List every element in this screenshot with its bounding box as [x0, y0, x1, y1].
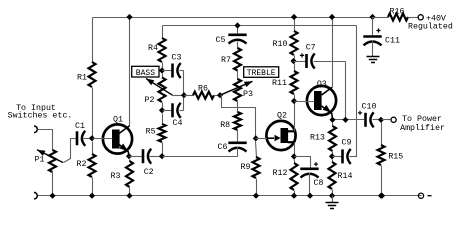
svg-text:P3: P3 — [243, 90, 253, 99]
svg-text:P2: P2 — [145, 96, 155, 105]
node junction P2-C4-R5 — [159, 107, 165, 113]
node junction Q1 emitter-C2-R3 — [126, 153, 132, 159]
label R8 — [220, 121, 230, 130]
node junction R15-rail — [378, 193, 384, 199]
svg-text:R10: R10 — [273, 40, 288, 49]
node junction R11-Q2-Q3 base — [291, 98, 297, 104]
node junction R5-C2-C6 line — [159, 153, 165, 159]
node junction emitter-R13 — [329, 117, 335, 123]
transistor Q1 — [93, 124, 133, 156]
capacitor C3 — [163, 63, 184, 78]
ground C11 — [367, 57, 380, 63]
node junction R3-rail — [126, 193, 132, 199]
label R6 — [198, 85, 208, 94]
svg-text:C1: C1 — [75, 122, 85, 131]
capacitor C11 — [363, 18, 381, 57]
resistor R6 — [185, 92, 221, 99]
wire C7 to emitter node — [345, 62, 347, 120]
resistor R13 — [329, 123, 336, 155]
node junction treble wiper — [217, 92, 223, 98]
node junction R13-R14-C9 — [329, 153, 335, 159]
svg-text:BASS: BASS — [136, 69, 155, 78]
capacitor C5 — [228, 26, 246, 49]
wire feedback line C2 to C6 — [163, 156, 238, 158]
node junction R4-C3-P2 — [159, 67, 165, 73]
wire Q3 emitter line — [333, 119, 365, 121]
svg-text:Switches etc.: Switches etc. — [8, 111, 73, 121]
label C1 — [75, 122, 85, 131]
wire Q1 collector to rail — [129, 18, 131, 127]
potentiometer P3 — [220, 71, 253, 102]
resistor R15 — [378, 123, 385, 196]
label R1 — [77, 74, 87, 83]
potentiometer P2 — [146, 74, 185, 109]
transistor Q3 — [295, 86, 337, 119]
node output terminal — [391, 117, 396, 122]
label R12 — [273, 169, 288, 178]
svg-text:C2: C2 — [144, 168, 154, 177]
ground bottom rail — [326, 196, 339, 209]
node junction C10-R15-output — [378, 117, 384, 123]
svg-text:To Power: To Power — [402, 115, 442, 124]
node junction emitter-C7 — [342, 117, 348, 123]
node supply terminal — [418, 15, 423, 20]
node junction C5-rail — [234, 22, 240, 28]
svg-text:C5: C5 — [216, 36, 226, 45]
label R7 — [221, 56, 231, 65]
svg-text:R8: R8 — [220, 121, 230, 130]
svg-text:Regulated: Regulated — [408, 22, 453, 32]
svg-text:R7: R7 — [221, 56, 231, 65]
label +40V — [426, 14, 446, 23]
node junction bass wiper — [181, 92, 187, 98]
svg-text:Q3: Q3 — [317, 80, 327, 89]
capacitor C7 — [294, 54, 346, 69]
capacitor C10 — [366, 112, 382, 127]
label C2 — [144, 168, 154, 177]
node 0V terminal — [418, 193, 431, 198]
svg-text:Q2: Q2 — [277, 112, 287, 121]
resistor R9 — [253, 142, 260, 196]
resistor R8 — [234, 102, 241, 142]
plus C8 — [314, 162, 318, 166]
label R11 — [272, 79, 287, 88]
wire C3-C4 right side — [183, 71, 185, 111]
svg-text:C3: C3 — [172, 54, 182, 63]
label To Power — [402, 115, 442, 124]
label Q2 — [277, 112, 287, 121]
wire Q2 top to node — [294, 102, 296, 132]
wire top +V rail — [93, 17, 373, 19]
wire Q3 collector to rail — [332, 18, 334, 88]
resistor R4 — [159, 26, 166, 69]
label To Input — [16, 104, 56, 113]
capacitor C1 — [77, 131, 92, 146]
svg-text:R15: R15 — [388, 153, 403, 162]
wire P1 wiper to C1 — [64, 139, 78, 163]
node input bottom terminal — [34, 192, 37, 199]
svg-text:R11: R11 — [272, 79, 287, 88]
resistor R10 — [291, 18, 298, 59]
node junction R10-rail — [291, 14, 297, 20]
label R14 — [338, 172, 353, 181]
resistor R11 — [291, 64, 298, 100]
wire bottom 0V rail — [37, 195, 422, 197]
svg-text:R2: R2 — [77, 160, 87, 169]
label C6 — [218, 143, 228, 152]
svg-text:P1: P1 — [35, 156, 45, 165]
node junction collector-rail Q1 — [126, 14, 132, 20]
label C10 — [362, 103, 377, 112]
wire treble wiper drop — [221, 96, 256, 137]
label P2 — [145, 96, 155, 105]
node junction C8-rail — [307, 193, 313, 199]
node junction C1-R1-R2-Q1 base — [89, 135, 95, 141]
capacitor C9 — [333, 149, 357, 164]
svg-text:Amplifier: Amplifier — [400, 123, 445, 133]
label R5 — [146, 128, 156, 137]
svg-text:C4: C4 — [173, 119, 183, 128]
svg-text:Q1: Q1 — [113, 116, 123, 125]
node junction P1-rail — [49, 193, 55, 199]
capacitor C6 — [228, 143, 246, 157]
label R2 — [77, 160, 87, 169]
label R10 — [273, 40, 288, 49]
label C11 — [385, 37, 400, 46]
label Regulated — [408, 22, 453, 32]
node junction R2-rail — [89, 193, 95, 199]
svg-text:C10: C10 — [362, 103, 377, 112]
node junction C11-R16-rail — [369, 14, 375, 20]
resistor R5 — [159, 114, 166, 155]
potentiometer P1 — [37, 150, 63, 196]
transistor Q2 — [256, 121, 296, 150]
label Q1 — [113, 116, 123, 125]
node junction Q2-R12-C8 — [291, 153, 297, 159]
resistor R12 — [291, 160, 298, 196]
svg-text:C6: C6 — [218, 143, 228, 152]
label R13 — [310, 134, 325, 143]
label Switches etc. — [8, 111, 73, 121]
label C7 — [306, 44, 316, 53]
svg-text:R9: R9 — [241, 163, 251, 172]
resistor R7 — [234, 48, 241, 71]
resistor R2 — [89, 142, 96, 196]
svg-text:R1: R1 — [77, 74, 87, 83]
svg-text:R16: R16 — [390, 7, 405, 16]
label R3 — [111, 172, 121, 181]
label R15 — [388, 153, 403, 162]
label P1 — [35, 156, 45, 165]
label BASS box — [132, 66, 159, 78]
wire output — [382, 119, 391, 121]
svg-text:R6: R6 — [198, 85, 208, 94]
label TREBLE box — [244, 67, 279, 78]
label C5 — [216, 36, 226, 45]
svg-text:R12: R12 — [273, 169, 288, 178]
label P3 — [243, 90, 253, 99]
node junction ground dot — [379, 193, 385, 199]
label R4 — [148, 44, 158, 53]
node input top terminal — [34, 126, 37, 133]
svg-text:R13: R13 — [310, 134, 325, 143]
svg-text:R4: R4 — [148, 44, 158, 53]
svg-text:TREBLE: TREBLE — [247, 69, 276, 78]
node junction R10-R11-C7 — [290, 58, 296, 64]
resistor R1 — [89, 18, 96, 137]
resistor R14 — [329, 160, 336, 196]
svg-text:C9: C9 — [342, 139, 352, 148]
node junction Q2 input — [253, 135, 259, 141]
capacitor C8 — [295, 157, 319, 196]
label C8 — [314, 179, 324, 188]
label C4 — [173, 119, 183, 128]
label R16 — [390, 7, 405, 16]
capacitor C2 — [130, 149, 163, 164]
svg-text:R5: R5 — [146, 128, 156, 137]
label R9 — [241, 163, 251, 172]
resistor R3 — [126, 160, 133, 196]
svg-text:C7: C7 — [306, 44, 316, 53]
node junction R14-rail-ground — [329, 193, 335, 199]
label Q3 — [317, 80, 327, 89]
wire Q2 bottom to R12 — [294, 143, 296, 155]
svg-text:C11: C11 — [385, 37, 400, 46]
plus C7 — [300, 53, 304, 57]
wire input to P1 — [38, 130, 53, 151]
svg-text:R3: R3 — [111, 172, 121, 181]
svg-text:R14: R14 — [338, 172, 353, 181]
resistor R16 — [373, 14, 419, 21]
plus C10 — [358, 111, 362, 115]
svg-text:C8: C8 — [314, 179, 324, 188]
label C9 — [342, 139, 352, 148]
node junction R12-rail — [291, 193, 297, 199]
plus C11 — [376, 28, 380, 32]
node junction Q3 collector-rail — [329, 14, 335, 20]
label Amplifier — [400, 123, 445, 133]
label C3 — [172, 54, 182, 63]
node junction R9-rail — [253, 193, 259, 199]
wire feedback rail — [163, 25, 357, 27]
wire feedback to C9 — [350, 26, 357, 157]
capacitor C4 — [163, 103, 184, 118]
